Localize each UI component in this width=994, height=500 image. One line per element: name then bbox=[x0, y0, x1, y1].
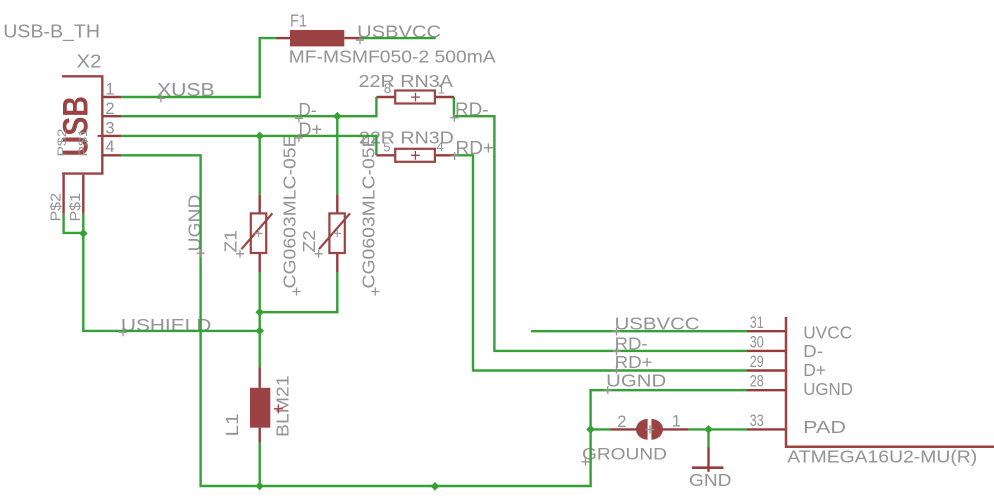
wire USBVCC to U pin31 bbox=[531, 330, 747, 332]
svg-text:GROUND: GROUND bbox=[582, 445, 667, 464]
varistor Z1 center cross bbox=[255, 230, 263, 238]
pin stub X2 P$2 bbox=[62, 175, 64, 214]
wire down to GND symbol bbox=[707, 429, 709, 447]
varistor Z2 center cross bbox=[333, 230, 341, 238]
wire shield pin P$2 bbox=[64, 214, 84, 233]
wire UGND from X2 pin4 down, across bottom, up to U pin28 bbox=[121, 155, 747, 486]
pin stub F1 right bbox=[344, 37, 361, 39]
pin stub X2 pin1 bbox=[102, 96, 121, 98]
wire D- from X2 pin2 bbox=[121, 97, 376, 116]
pin stub L1 top bbox=[259, 367, 261, 388]
chip U body edge (ATMEGA16U2) bbox=[786, 317, 994, 447]
pin stub X2 pin4 bbox=[102, 154, 121, 156]
svg-text:P$1: P$1 bbox=[76, 128, 90, 156]
wire USBVCC from fuse F1 output bbox=[361, 37, 435, 39]
svg-text:GND: GND bbox=[689, 470, 732, 490]
svg-text:1: 1 bbox=[438, 82, 446, 97]
varistor Z2 diagonal bbox=[319, 213, 350, 249]
chip pin stub 33 bbox=[747, 428, 786, 430]
svg-text:P$2: P$2 bbox=[55, 128, 69, 156]
pin stub X2 pin3 bbox=[102, 135, 121, 137]
wire Z2 bottom joining Z1 column bbox=[260, 272, 338, 312]
name origin cross Z1 bbox=[236, 250, 244, 258]
ground symbol bar bbox=[692, 466, 723, 469]
label origin cross RD- bottom bbox=[613, 347, 621, 355]
wire GROUND to solder jumper pin2 bbox=[591, 428, 611, 430]
svg-text:ATMEGA16U2-MU(R): ATMEGA16U2-MU(R) bbox=[787, 447, 977, 467]
svg-text:Z1: Z1 bbox=[220, 230, 240, 252]
junction jumper pin1 / GND bbox=[704, 425, 713, 434]
svg-text:X2: X2 bbox=[77, 51, 102, 71]
wire USHIELD from shield pin P$1 bbox=[83, 214, 259, 331]
svg-text:1: 1 bbox=[672, 412, 681, 430]
wire solder jumper pin1 to U pin33 bbox=[688, 428, 747, 430]
solder jumper left pad bbox=[636, 419, 648, 440]
varistor Z2 body bbox=[329, 213, 344, 253]
svg-text:33: 33 bbox=[750, 412, 764, 430]
resistor RN3D body bbox=[395, 149, 435, 162]
label origin cross UGND bottom bbox=[604, 386, 612, 394]
pin stub X2 P$1 bbox=[82, 175, 84, 214]
chip pin stub 29 bbox=[747, 369, 786, 371]
varistor Z1 diagonal bbox=[241, 213, 272, 249]
label origin cross XUSB bbox=[157, 94, 165, 102]
junction Z1/Z2 bottom bbox=[255, 308, 264, 317]
svg-text:UVCC: UVCC bbox=[803, 323, 852, 343]
resistor RN3A body bbox=[395, 91, 435, 104]
junction shield P$1/P$2 bbox=[79, 229, 88, 238]
pin stub solder jumper pin1 bbox=[663, 428, 689, 430]
svg-text:RD+: RD+ bbox=[615, 352, 653, 372]
label origin cross RD+ top bbox=[451, 152, 459, 160]
label origin cross USBVCC bottom bbox=[613, 327, 621, 335]
pin stub RN3A pin1 bbox=[435, 96, 454, 98]
svg-text:30: 30 bbox=[750, 334, 764, 352]
wire RD- from RN3A pin1 down and right to U pin30 bbox=[454, 97, 747, 351]
svg-text:4: 4 bbox=[437, 139, 444, 154]
svg-text:Z2: Z2 bbox=[299, 230, 319, 253]
label origin cross RD+ bottom bbox=[613, 366, 621, 374]
pin stub RN3D pin4 bbox=[435, 154, 455, 156]
junction D- / Z2 bbox=[333, 112, 342, 121]
wire L1 bottom to ground rail bbox=[259, 443, 261, 487]
value origin cross Z1 bbox=[293, 288, 301, 296]
svg-text:3: 3 bbox=[105, 119, 114, 137]
chip pin stub 28 bbox=[747, 389, 786, 391]
pin stub RN3D pin5 bbox=[376, 154, 395, 156]
fuse F1 body bbox=[290, 30, 344, 46]
svg-text:8: 8 bbox=[384, 81, 392, 96]
svg-text:D-: D- bbox=[803, 341, 823, 361]
pin stub Z2 bottom bbox=[336, 253, 338, 272]
solder jumper right pad bbox=[651, 419, 663, 440]
name origin cross Z2 bbox=[315, 250, 323, 258]
inductor L1 origin cross (maroon) bbox=[274, 404, 283, 413]
pin stub Z2 top bbox=[336, 195, 338, 214]
svg-text:28: 28 bbox=[750, 373, 764, 391]
svg-text:UGND: UGND bbox=[803, 379, 853, 399]
junction ground rail mid bbox=[431, 482, 440, 491]
junction D+ / Z1 bbox=[255, 132, 264, 141]
wire RD+ from RN3D pin4 down and right to U pin29 bbox=[454, 155, 747, 370]
label origin cross D- bbox=[295, 114, 303, 122]
pin tick inside X2 at pin3 bbox=[98, 135, 103, 137]
svg-text:5: 5 bbox=[383, 140, 390, 155]
pin stub solder jumper pin2 bbox=[611, 428, 637, 430]
svg-text:31: 31 bbox=[750, 314, 764, 332]
junction L1 bottom / ground rail bbox=[255, 482, 264, 491]
svg-text:D+: D+ bbox=[803, 360, 826, 380]
label origin cross USBVCC top bbox=[356, 36, 364, 44]
label origin cross GROUND bbox=[582, 458, 590, 466]
svg-text:2: 2 bbox=[617, 413, 626, 431]
pin stub Z1 bottom bbox=[259, 253, 261, 272]
label origin cross USHIELD bbox=[119, 328, 127, 336]
label origin cross UGND left bbox=[197, 249, 205, 257]
wire Z1 top to D+ bbox=[259, 136, 261, 195]
pin stub F1 left bbox=[276, 37, 290, 39]
pin stub X2 pin2 bbox=[102, 115, 121, 117]
svg-text:4: 4 bbox=[105, 138, 114, 156]
pin stub RN3A pin8 bbox=[376, 96, 395, 98]
svg-text:PAD: PAD bbox=[803, 417, 846, 437]
connector X2 body outline (open left side) bbox=[62, 76, 102, 173]
resistor RN3D origin cross bbox=[411, 151, 420, 160]
wire Z1 bottom down to L1 bbox=[259, 272, 261, 367]
wire Z2 top to D- bbox=[336, 116, 338, 194]
svg-text:29: 29 bbox=[750, 353, 764, 371]
varistor Z1 body bbox=[251, 213, 266, 253]
svg-text:CG0603MLC-05E: CG0603MLC-05E bbox=[279, 135, 299, 289]
svg-text:P$2: P$2 bbox=[48, 193, 65, 222]
junction UGND / jumper pin2 bbox=[586, 425, 595, 434]
wire D+ from X2 pin3 down to RN3D bbox=[121, 136, 376, 155]
resistor RN3A origin cross bbox=[411, 93, 420, 102]
chip pin stub 31 bbox=[747, 330, 786, 332]
label origin cross RD- top bbox=[450, 114, 458, 122]
junction USHIELD / Z column bbox=[255, 327, 264, 336]
svg-text:CG0603MLC-05E: CG0603MLC-05E bbox=[359, 135, 379, 289]
wire XUSB: X2 pin1 up to fuse F1 bbox=[121, 38, 277, 97]
pin stub Z1 top bbox=[259, 195, 261, 214]
svg-text:F1: F1 bbox=[290, 11, 307, 31]
svg-text:UGND: UGND bbox=[606, 371, 666, 391]
chip pin stub 30 bbox=[747, 350, 786, 352]
ground symbol stem bbox=[707, 448, 709, 472]
pin stub L1 bottom bbox=[259, 428, 261, 443]
svg-text:BLM21: BLM21 bbox=[273, 376, 293, 438]
value origin cross Z2 bbox=[371, 288, 379, 296]
svg-text:MF-MSMF050-2 500mA: MF-MSMF050-2 500mA bbox=[289, 47, 496, 67]
svg-text:USB-B_TH: USB-B_TH bbox=[3, 21, 100, 42]
svg-text:P$1: P$1 bbox=[67, 193, 84, 222]
label origin cross D+ bbox=[295, 134, 303, 142]
svg-text:L1: L1 bbox=[222, 414, 242, 437]
inductor L1 body bbox=[250, 388, 270, 428]
origin cross solder jumper bbox=[646, 425, 655, 434]
